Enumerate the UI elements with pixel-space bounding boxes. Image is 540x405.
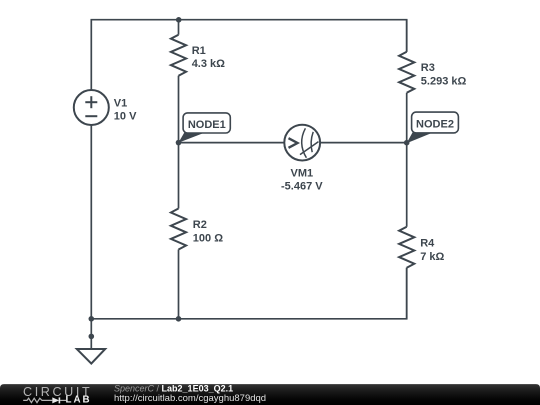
svg-text:5.293 kΩ: 5.293 kΩ <box>421 75 467 87</box>
svg-text:10 V: 10 V <box>114 111 137 123</box>
junction dot bottom R2 <box>176 316 182 322</box>
svg-text:VM1: VM1 <box>290 167 313 179</box>
resistor R4 <box>399 227 414 268</box>
svg-text:R3: R3 <box>421 62 435 74</box>
wire from R4 to bottom rail <box>406 268 408 319</box>
svg-text:7 kΩ: 7 kΩ <box>420 251 444 263</box>
label V1 10 V <box>114 98 137 123</box>
wire lead top of R3 <box>406 20 408 52</box>
node label NODE1 <box>178 113 230 143</box>
CircuitLab logo wordmark CIRCUIT <box>23 385 92 399</box>
wire top rail from top-left corner to R1 branch <box>91 20 179 90</box>
ground <box>77 349 105 364</box>
voltmeter VM1 <box>284 125 320 161</box>
svg-text:NODE2: NODE2 <box>416 119 454 131</box>
junction dot NODE1 <box>176 140 182 146</box>
svg-text:4.3 kΩ: 4.3 kΩ <box>192 58 225 70</box>
svg-text:http://circuitlab.com/cgayghu8: http://circuitlab.com/cgayghu879dqd <box>114 393 266 404</box>
wire from R3 to NODE2 <box>406 93 408 143</box>
junction dot ground terminal <box>89 334 95 340</box>
wire node row from voltmeter to NODE2 <box>320 142 407 144</box>
resistor R1 <box>171 35 186 76</box>
wire lead top of R1 <box>178 20 180 35</box>
resistor R3 <box>399 52 414 93</box>
wire ground stem <box>90 319 92 349</box>
footer bar <box>0 384 540 405</box>
svg-text:R1: R1 <box>192 45 206 57</box>
wire left rail from V1 to ground node <box>90 125 92 319</box>
svg-text:R2: R2 <box>193 219 207 231</box>
wire from R2 to bottom rail <box>178 250 180 319</box>
svg-text:NODE1: NODE1 <box>188 119 226 131</box>
junction dot NODE2 <box>404 140 410 146</box>
footer title SpencerC / Lab2_1E03_Q2.1 <box>114 384 233 394</box>
resistor R2 <box>171 209 186 250</box>
label R1 4.3 kΩ <box>192 45 225 70</box>
svg-text:LAB: LAB <box>66 395 92 405</box>
label R4 7 kΩ <box>420 237 444 262</box>
CircuitLab logo resistor-diode icon <box>23 397 66 403</box>
junction dot top node <box>176 17 182 23</box>
svg-text:100 Ω: 100 Ω <box>193 232 223 244</box>
label R2 100 Ω <box>193 219 223 244</box>
node label NODE2 <box>407 112 459 143</box>
wire from NODE2 down to R4 <box>406 143 408 227</box>
label VM1 -5.467 V <box>281 167 323 192</box>
wire from NODE1 down to R2 <box>178 143 180 209</box>
svg-text:-5.467 V: -5.467 V <box>281 181 323 193</box>
CircuitLab logo wordmark LAB <box>66 395 92 405</box>
wire from R1 to NODE1 <box>178 76 180 143</box>
svg-text:R4: R4 <box>420 237 435 249</box>
junction dot bottom left <box>89 316 95 322</box>
wire top rail from R1 branch to R3 branch <box>179 20 407 52</box>
wire node row from NODE1 to voltmeter <box>179 142 285 144</box>
footer url <box>114 393 266 404</box>
svg-text:V1: V1 <box>114 98 127 110</box>
voltage source V1 <box>74 90 109 125</box>
label R3 5.293 kΩ <box>421 62 467 88</box>
wire bottom rail <box>91 268 406 319</box>
